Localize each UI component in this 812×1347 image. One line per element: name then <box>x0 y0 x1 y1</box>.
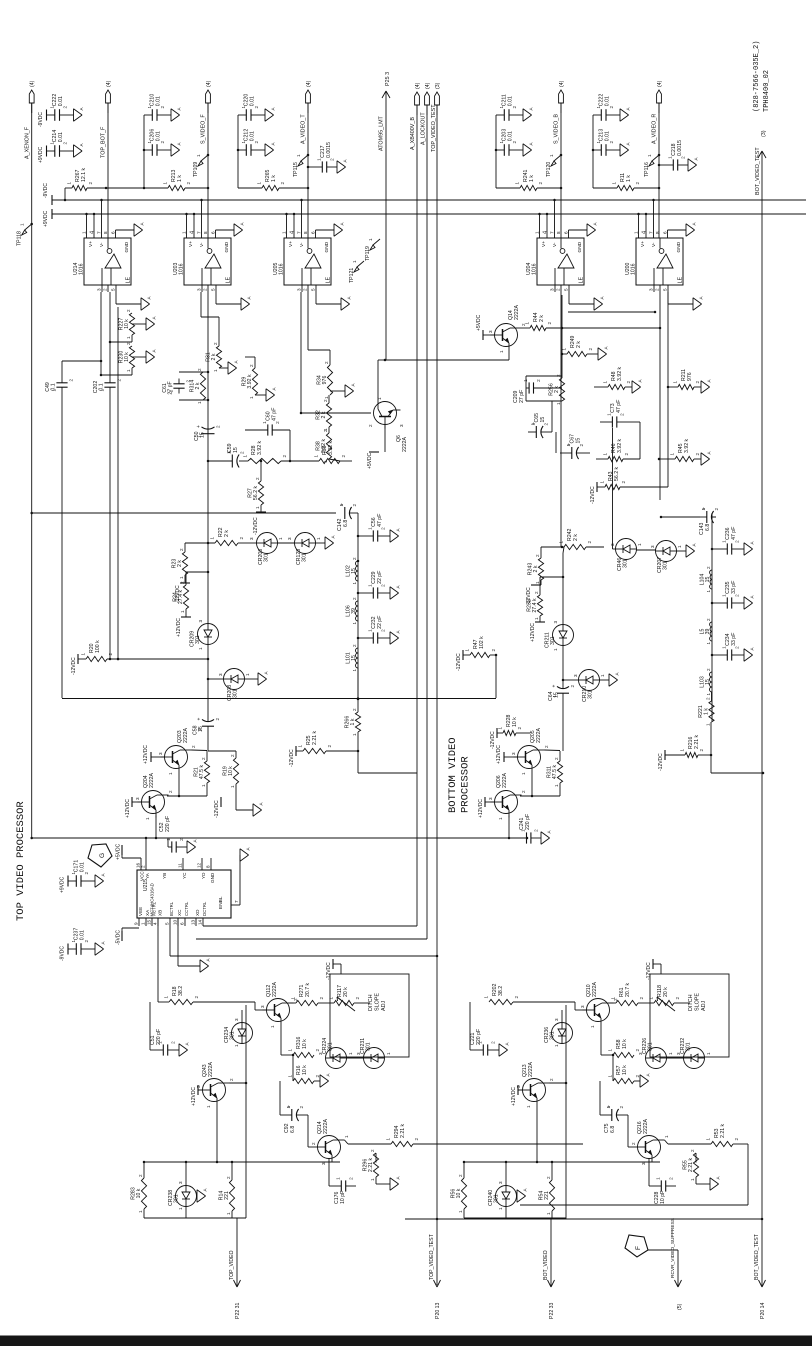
svg-text:1: 1 <box>197 401 202 404</box>
svg-text:V+: V+ <box>188 241 194 247</box>
svg-text:1016: 1016 <box>179 263 185 275</box>
transistor Q213 2222A <box>516 1061 554 1108</box>
svg-text:301: 301 <box>264 553 270 562</box>
test point TP119 <box>365 238 380 261</box>
svg-text:27.4 k: 27.4 k <box>178 590 184 605</box>
svg-text:33 pF: 33 pF <box>731 581 737 594</box>
output flag TOP_VIDEO_TEST (3) <box>435 82 441 115</box>
svg-text:1: 1 <box>608 1075 613 1078</box>
supply +12VDC at Q204 <box>125 797 142 818</box>
potentiometer R117 20 k DITCH SLOPE ADJ <box>329 985 371 1011</box>
svg-text:BOT_VIDEO_TEST: BOT_VIDEO_TEST <box>755 147 761 195</box>
transistor Q243 2222A <box>196 1061 234 1108</box>
resistor R211 976 to ground <box>667 369 712 393</box>
svg-text:(4): (4) <box>425 82 431 89</box>
wire BCTRL to TOP_VIDEO_TEST <box>170 926 438 957</box>
svg-text:2 k: 2 k <box>576 341 582 348</box>
diode CR46 301 <box>610 539 642 572</box>
svg-text:1: 1 <box>210 537 215 540</box>
resistor R296 2.21 k to ground <box>363 1149 401 1190</box>
test point TP115 <box>293 154 309 177</box>
svg-text:-12VDC: -12VDC <box>590 486 596 504</box>
resistor R249 2 k to ground <box>561 335 609 360</box>
svg-text:1: 1 <box>243 455 248 458</box>
decoupling cap C222 0.01 with ground <box>593 94 631 122</box>
U215 pin 10 <box>173 918 179 926</box>
svg-text:15: 15 <box>554 692 560 698</box>
diode CR224 301 <box>318 1038 353 1069</box>
svg-text:2222A: 2222A <box>643 1118 649 1134</box>
svg-text:1: 1 <box>606 1106 611 1109</box>
svg-text:2: 2 <box>587 541 592 544</box>
resistor R294 2.21 k <box>386 1123 420 1146</box>
wire XC stub down <box>178 918 211 972</box>
box DITCH SLOPE ADJ <box>330 974 409 1057</box>
svg-text:1: 1 <box>549 154 554 157</box>
transistor Q204 2222A <box>135 772 173 820</box>
svg-text:2222A: 2222A <box>149 772 155 788</box>
svg-text:1: 1 <box>634 231 639 234</box>
svg-text:1: 1 <box>611 997 616 1000</box>
svg-text:1 k: 1 k <box>350 718 356 725</box>
U215 pin 2 <box>141 858 147 870</box>
svg-text:TOP_VIDEO_TEST: TOP_VIDEO_TEST <box>431 104 437 152</box>
svg-text:0.01: 0.01 <box>156 131 162 141</box>
svg-text:3: 3 <box>649 288 654 291</box>
inductor L103 15 <box>700 668 713 696</box>
svg-text:301: 301 <box>663 561 669 570</box>
svg-text:2: 2 <box>168 790 173 793</box>
label TOP_VIDEO_TEST <box>431 104 437 152</box>
svg-text:3: 3 <box>218 673 223 676</box>
svg-text:3: 3 <box>158 752 163 755</box>
svg-text:6: 6 <box>111 231 116 234</box>
svg-text:2222A: 2222A <box>592 981 598 997</box>
diode CR238 301 <box>168 1162 208 1218</box>
svg-text:TP120: TP120 <box>546 162 552 177</box>
svg-text:8: 8 <box>303 231 308 234</box>
svg-text:2: 2 <box>191 745 196 748</box>
svg-text:102 k: 102 k <box>479 636 485 649</box>
U215 pin 11 <box>178 858 184 870</box>
svg-text:1: 1 <box>706 723 711 726</box>
svg-text:5: 5 <box>311 288 316 291</box>
svg-text:1: 1 <box>234 1044 239 1047</box>
wire S1 top video main line <box>207 292 209 751</box>
svg-text:5: 5 <box>111 288 116 291</box>
resistor R25 2.21 k from -12VDC <box>289 730 359 767</box>
capacitor C49 0.1 <box>45 379 74 392</box>
svg-text:2 k: 2 k <box>211 353 217 360</box>
svg-text:220 pF: 220 pF <box>525 814 531 830</box>
wire filter to R266 <box>357 668 360 700</box>
svg-text:2222A: 2222A <box>536 727 542 743</box>
svg-text:2: 2 <box>186 182 191 185</box>
svg-text:1: 1 <box>270 1025 275 1028</box>
supply -12VDC at R118 <box>646 959 661 980</box>
svg-text:8: 8 <box>206 865 211 868</box>
resistor R53 2.21 k <box>706 1123 740 1146</box>
svg-text:2: 2 <box>714 508 719 511</box>
wire Q210 base <box>513 1002 587 1010</box>
svg-text:1: 1 <box>670 453 675 456</box>
svg-text:VEE: VEE <box>138 907 143 916</box>
label TOP_BOT_F <box>101 126 107 158</box>
svg-text:0.01: 0.01 <box>58 96 64 106</box>
wire top filter spine <box>357 513 360 700</box>
svg-text:TP121: TP121 <box>349 268 355 283</box>
wire U214 pin 2 line <box>109 292 112 660</box>
svg-text:1: 1 <box>344 1135 349 1138</box>
svg-text:3: 3 <box>97 288 102 291</box>
wire R294 output line <box>413 1143 583 1145</box>
svg-text:2: 2 <box>239 537 244 540</box>
svg-text:1: 1 <box>286 1106 291 1109</box>
svg-text:6.8: 6.8 <box>705 524 711 531</box>
svg-text:GND: GND <box>324 241 330 252</box>
label A_XB400V_B <box>410 117 416 150</box>
svg-text:1: 1 <box>498 727 503 730</box>
svg-text:P20 13: P20 13 <box>435 1302 441 1319</box>
svg-text:33 pF: 33 pF <box>731 633 737 646</box>
resistor R228 10 k from -12VDC <box>490 714 530 749</box>
svg-text:V+: V+ <box>541 241 547 247</box>
resistor R283 10 k <box>131 1162 147 1218</box>
decoupling cap C206 0.01 with ground <box>144 129 182 157</box>
svg-text:3: 3 <box>297 288 302 291</box>
svg-text:BCTRL: BCTRL <box>169 901 174 916</box>
svg-text:15: 15 <box>147 919 152 925</box>
svg-text:47 pF: 47 pF <box>616 400 622 413</box>
wire R53 output line <box>520 1144 748 1205</box>
svg-text:(4): (4) <box>206 80 212 87</box>
title text 828-7566-035E_2 <box>753 41 761 112</box>
svg-text:-12VDC: -12VDC <box>214 800 220 818</box>
svg-text:2: 2 <box>655 288 660 291</box>
svg-text:38.2: 38.2 <box>178 986 184 996</box>
wire TOP_VIDEO_TEST net (to P20 13) <box>436 105 438 1285</box>
svg-text:+5VDC: +5VDC <box>116 843 122 860</box>
svg-text:2: 2 <box>546 1176 551 1179</box>
wire decap feed <box>237 115 240 188</box>
inductor L5 39 <box>700 618 713 645</box>
wire ATOM95_LMT net to P25 pin 3 <box>382 91 390 360</box>
U215 pin 12 <box>197 858 203 870</box>
label BOTTOM VIDEO PROCESSOR <box>447 737 472 813</box>
svg-text:3.92 k: 3.92 k <box>247 374 253 389</box>
svg-text:A_XB400V_B: A_XB400V_B <box>410 117 416 150</box>
inductor L104 15 <box>700 566 713 593</box>
svg-text:2: 2 <box>514 996 519 999</box>
wire U215 YA to feedback bus <box>145 837 148 858</box>
svg-text:1: 1 <box>600 481 605 484</box>
wire x668 net <box>667 292 669 487</box>
svg-text:2: 2 <box>299 1106 304 1109</box>
wire Q6 base net <box>300 292 371 414</box>
svg-text:12: 12 <box>197 862 202 868</box>
svg-text:+12VDC: +12VDC <box>125 799 131 818</box>
svg-text:2: 2 <box>706 566 711 569</box>
connector P20 pin 13 TOP_VIDEO_TEST <box>429 1233 441 1319</box>
svg-text:1: 1 <box>166 838 171 841</box>
svg-text:1: 1 <box>526 1105 531 1108</box>
wire A_XB400V_B net <box>416 105 418 926</box>
svg-text:S_VIDEO_B: S_VIDEO_B <box>554 114 560 144</box>
svg-text:P20 14: P20 14 <box>760 1302 766 1319</box>
op-amp U204 1016 video driver <box>526 199 605 310</box>
wire XB to R18 <box>158 918 169 1002</box>
svg-text:3: 3 <box>676 1052 681 1055</box>
svg-text:301: 301 <box>328 1042 334 1051</box>
svg-text:2: 2 <box>138 1174 143 1177</box>
svg-text:(5): (5) <box>677 1303 683 1310</box>
wire y1219 bottom bus <box>405 1218 763 1221</box>
svg-text:1: 1 <box>352 622 357 625</box>
svg-text:2: 2 <box>126 342 131 345</box>
supply +12VDC at Q206 <box>478 797 495 818</box>
capacitor C58 15 (polarized) <box>193 718 221 736</box>
wire Q203 collector link <box>192 749 208 752</box>
svg-text:3: 3 <box>249 537 254 540</box>
svg-text:2.21 k: 2.21 k <box>400 1123 406 1138</box>
svg-text:3: 3 <box>610 543 615 546</box>
svg-text:2 k: 2 k <box>224 530 230 537</box>
wire y838 feedback bus <box>32 837 527 839</box>
svg-text:22 pF: 22 pF <box>377 616 383 629</box>
svg-text:1: 1 <box>314 455 319 458</box>
label BOT_VIDEO_TEST <box>755 147 761 195</box>
svg-text:+12VDC: +12VDC <box>176 618 182 637</box>
wire Q204 emitter drop <box>155 816 158 840</box>
capacitor C241 220 pF to ground <box>519 814 552 844</box>
label S_VIDEO_B <box>554 114 560 144</box>
svg-text:BOTTOM VIDEO: BOTTOM VIDEO <box>447 737 459 813</box>
decoupling cap C214 0.01 with +9VDC and ground <box>38 130 84 163</box>
svg-text:5: 5 <box>564 288 569 291</box>
resistor R47 102 k from -12VDC <box>456 636 497 671</box>
transistor Q216 2222A <box>631 1118 669 1165</box>
resistor R243 2 k from -12VDC <box>526 547 564 605</box>
svg-text:2: 2 <box>517 727 522 730</box>
svg-text:1: 1 <box>673 381 678 384</box>
wire Q112 base <box>193 1002 267 1010</box>
svg-text:2: 2 <box>675 997 680 1000</box>
svg-text:(3): (3) <box>761 130 767 137</box>
wire A_VIDEO_R output net <box>658 103 660 238</box>
svg-text:1: 1 <box>368 238 373 241</box>
capacitor C176 10 pF <box>329 1159 356 1205</box>
svg-text:3: 3 <box>511 752 516 755</box>
supply +9VDC rail tick <box>43 209 52 227</box>
output flag S_VIDEO_F (4) <box>206 80 212 113</box>
svg-text:10 k: 10 k <box>622 1039 628 1049</box>
output flag A_VIDEO_R (4) <box>657 80 663 113</box>
svg-text:2: 2 <box>556 374 561 377</box>
svg-text:4: 4 <box>290 231 296 234</box>
svg-text:1: 1 <box>81 653 86 656</box>
svg-text:2: 2 <box>280 182 285 185</box>
svg-text:2: 2 <box>230 754 235 757</box>
ground at U200 pin 6 <box>686 222 697 237</box>
svg-text:1: 1 <box>680 749 685 752</box>
svg-text:7: 7 <box>97 231 102 234</box>
wire Q203 emitter bus <box>167 773 207 798</box>
resistor R44 2 k <box>522 312 662 330</box>
test point TP109 <box>193 154 209 177</box>
svg-text:1: 1 <box>386 1052 391 1055</box>
svg-text:1: 1 <box>535 231 540 234</box>
decoupling cap C211 0.01 with ground <box>496 94 534 121</box>
svg-text:2: 2 <box>706 697 711 700</box>
decoupling cap C213 0.01 with ground <box>593 129 631 157</box>
svg-text:2: 2 <box>88 182 93 185</box>
svg-text:2 k: 2 k <box>554 386 560 393</box>
footer title bar <box>0 1336 812 1347</box>
svg-text:1: 1 <box>600 674 605 677</box>
svg-text:2 k: 2 k <box>573 534 579 541</box>
svg-text:1: 1 <box>706 1052 711 1055</box>
svg-text:(4): (4) <box>657 80 663 87</box>
svg-text:YB: YB <box>162 873 167 879</box>
svg-text:4: 4 <box>90 231 96 234</box>
svg-text:47 pF: 47 pF <box>377 514 383 527</box>
svg-text:1: 1 <box>298 745 303 748</box>
svg-text:3: 3 <box>553 621 558 624</box>
wire A_XENON_F net <box>30 103 33 839</box>
test point TP120 <box>546 154 562 177</box>
test point TP118 <box>17 223 33 246</box>
svg-text:7: 7 <box>197 231 202 234</box>
svg-text:2: 2 <box>323 429 328 432</box>
svg-text:1: 1 <box>288 1049 293 1052</box>
svg-text:0.01: 0.01 <box>250 96 256 106</box>
resistor R46 3.92 k <box>596 422 640 462</box>
svg-text:13: 13 <box>191 919 196 925</box>
svg-text:1: 1 <box>126 336 131 339</box>
resistor R28 3.92 k <box>239 440 287 463</box>
svg-text:2: 2 <box>538 182 543 185</box>
svg-text:1: 1 <box>706 642 711 645</box>
wire A_LOCKOUT net <box>426 105 428 939</box>
capacitor C236 47 pF to ground <box>711 527 755 556</box>
svg-text:2: 2 <box>458 1174 463 1177</box>
resistor R232 27.4 k from +12VDC <box>527 576 565 642</box>
svg-text:2: 2 <box>699 749 704 752</box>
svg-text:2: 2 <box>315 1049 320 1052</box>
svg-text:+12VDC: +12VDC <box>530 623 536 642</box>
wire TOP_BOT_F output net <box>107 103 109 238</box>
decoupling cap C171 0.01 <box>60 860 106 893</box>
svg-text:1: 1 <box>553 648 558 651</box>
svg-text:1: 1 <box>257 182 262 185</box>
wire y360 node <box>383 359 509 362</box>
wire U204 lower link <box>568 311 656 314</box>
U215 pin 1 <box>141 918 147 926</box>
resistor R48 3.92 k to ground <box>594 366 643 393</box>
svg-text:4: 4 <box>190 231 196 234</box>
svg-text:2: 2 <box>621 481 626 484</box>
resistor R29 3.92 k to ground <box>242 357 277 401</box>
svg-text:2.21 k: 2.21 k <box>312 730 318 745</box>
svg-text:2: 2 <box>355 997 360 1000</box>
supply +5VDC at U215 VCC <box>116 843 142 860</box>
svg-text:1: 1 <box>590 1025 595 1028</box>
resistor R22 2 k <box>185 527 252 545</box>
svg-text:1: 1 <box>370 1178 375 1181</box>
svg-text:220 pF: 220 pF <box>476 1029 482 1045</box>
svg-text:1: 1 <box>163 182 168 185</box>
wire Q216 base <box>628 1146 634 1148</box>
svg-text:3.92 k: 3.92 k <box>617 366 623 381</box>
decoupling cap C212 0.01 with ground <box>238 129 276 157</box>
capacitor C209 27 pF <box>513 376 562 403</box>
svg-text:TP116: TP116 <box>644 162 650 177</box>
svg-text:2222A: 2222A <box>402 436 408 452</box>
svg-text:4: 4 <box>543 231 549 234</box>
box DITCH SLOPE ADJ <box>650 974 729 1057</box>
capacitor C232 22 pF to ground <box>358 616 401 645</box>
wire C143 feed <box>660 516 700 519</box>
svg-text:220 pF: 220 pF <box>156 1029 162 1045</box>
capacitor C234 33 pF to ground <box>711 633 755 662</box>
svg-text:6: 6 <box>211 231 216 234</box>
svg-text:YC: YC <box>182 872 187 879</box>
svg-text:2: 2 <box>521 790 526 793</box>
svg-text:4: 4 <box>153 922 158 925</box>
svg-text:10 k: 10 k <box>136 1188 142 1198</box>
wire x118 long net <box>117 307 120 660</box>
svg-text:2: 2 <box>734 1138 739 1141</box>
svg-text:2: 2 <box>635 1075 640 1078</box>
svg-text:-5VDC: -5VDC <box>116 930 122 945</box>
wire cluster bus <box>463 1161 660 1164</box>
svg-text:1 k: 1 k <box>529 175 535 182</box>
svg-text:301: 301 <box>366 1042 372 1051</box>
wire +9VDC rail <box>52 213 806 215</box>
svg-text:1 k: 1 k <box>626 175 632 182</box>
wire U214 pin 3 line <box>62 292 102 375</box>
inductor L106 39 <box>346 597 359 625</box>
svg-text:(3): (3) <box>435 82 441 89</box>
diode CR209 301 <box>190 620 219 651</box>
wire decap feed <box>495 115 498 188</box>
svg-text:2: 2 <box>324 361 329 364</box>
svg-text:2.21 k: 2.21 k <box>688 1158 694 1173</box>
capacitor C143 6.8 (polarized) <box>699 507 719 535</box>
svg-text:0.01: 0.01 <box>58 132 64 142</box>
svg-text:2: 2 <box>311 1142 316 1145</box>
svg-text:221: 221 <box>544 1191 550 1200</box>
svg-text:-12VDC: -12VDC <box>71 657 77 675</box>
svg-text:2: 2 <box>352 708 357 711</box>
svg-text:47.5 k: 47.5 k <box>199 765 205 780</box>
svg-text:1: 1 <box>201 784 206 787</box>
svg-text:2: 2 <box>368 424 373 427</box>
svg-text:5: 5 <box>165 922 170 925</box>
svg-text:SLOPE: SLOPE <box>375 993 381 1011</box>
svg-text:1: 1 <box>515 182 520 185</box>
svg-text:10 k: 10 k <box>302 1039 308 1049</box>
svg-text:27.4 k: 27.4 k <box>532 598 538 613</box>
svg-text:2222A: 2222A <box>272 981 278 997</box>
flag G <box>88 844 112 867</box>
wire Q214 base <box>308 1146 314 1148</box>
svg-text:2: 2 <box>534 591 539 594</box>
svg-text:2: 2 <box>695 453 700 456</box>
resistor R213 1 k <box>144 169 209 190</box>
output flag A_XB400V_B (4) <box>415 82 421 115</box>
connector (5) RCVR_VIDEO_SUPPRESS <box>670 1218 683 1310</box>
